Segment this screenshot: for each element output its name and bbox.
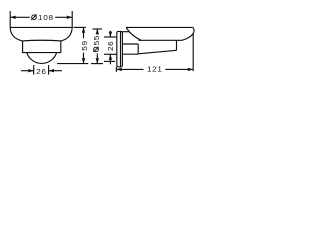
dim 55 ext bottom	[91, 63, 103, 65]
tray front edge	[176, 40, 178, 50]
svg-text:26: 26	[36, 67, 46, 75]
dim 121 ext left	[115, 67, 117, 72]
dish outline front	[10, 27, 72, 41]
dim 59 line	[83, 27, 85, 38]
dish underside	[139, 39, 183, 41]
dim 55 ext top	[93, 28, 103, 30]
svg-text:55: 55	[92, 35, 100, 45]
bracket front	[23, 41, 61, 53]
dim 108 line	[10, 16, 30, 18]
dim 121 ext right	[192, 34, 194, 72]
dim 108 ext right	[71, 11, 73, 27]
svg-text:59: 59	[80, 40, 88, 50]
rosette dome front	[27, 53, 57, 64]
svg-text:108: 108	[38, 14, 54, 22]
label 55 digits	[92, 35, 100, 45]
dim 26 side ext top	[104, 36, 117, 38]
dim 26 front ext lines	[33, 65, 35, 75]
holder ring inner bottom	[122, 43, 138, 45]
label 26 side	[106, 41, 114, 51]
dim 26 side bottom tick	[104, 60, 115, 62]
dish left wall curve	[126, 28, 141, 41]
holder ring front edge	[137, 44, 139, 54]
plate seam line	[120, 32, 122, 67]
wall plate side	[117, 31, 123, 66]
dim 26 side arrows outside	[109, 31, 111, 37]
dim 121 line	[116, 68, 143, 70]
label 59	[80, 40, 88, 50]
holder outer bottom	[122, 53, 138, 55]
label d55 diameter symbol	[93, 47, 98, 52]
dim 59 ext top	[73, 26, 85, 28]
dim 59 ext bottom	[57, 63, 88, 65]
dim 108 ext left	[9, 11, 11, 27]
holder ring top	[122, 31, 129, 33]
dim 55 line	[96, 29, 98, 33]
svg-text:121: 121	[147, 65, 163, 73]
dish right wall	[182, 27, 194, 40]
label d108 diameter symbol	[31, 14, 36, 20]
svg-text:26: 26	[106, 41, 114, 51]
tray bottom	[138, 50, 176, 54]
dish rim top side	[126, 26, 193, 28]
dim 26 front line + outside arrows	[21, 70, 34, 72]
dim 26 side ext bottom	[104, 53, 117, 55]
